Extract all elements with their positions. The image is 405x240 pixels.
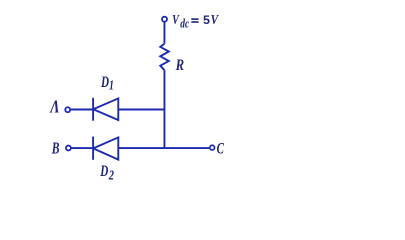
resistor R (zigzag) bbox=[160, 44, 169, 71]
svg-text:V: V bbox=[211, 12, 220, 27]
terminal B (open circle) bbox=[66, 146, 71, 151]
svg-text:D: D bbox=[99, 162, 108, 179]
svg-text:R: R bbox=[175, 57, 185, 75]
svg-text:5: 5 bbox=[203, 13, 210, 27]
wire top vertical (terminal to resistor) bbox=[163, 22, 165, 43]
wire input A to diode D1 cathode bbox=[71, 109, 93, 111]
svg-text:Λ: Λ bbox=[50, 98, 60, 117]
svg-text:C: C bbox=[217, 140, 225, 157]
wire diode D2 to output C bbox=[118, 147, 209, 149]
svg-text:D: D bbox=[100, 73, 109, 90]
label = sign bbox=[191, 18, 198, 23]
wire diode D1 to node bbox=[118, 109, 164, 111]
terminal Vdc (open circle) bbox=[162, 17, 167, 22]
diode D2 (triangle + cathode bar) bbox=[93, 137, 118, 160]
terminal C (open circle) bbox=[210, 145, 215, 150]
svg-text:2: 2 bbox=[108, 167, 114, 183]
svg-text:1: 1 bbox=[109, 77, 114, 93]
svg-text:B: B bbox=[51, 139, 60, 158]
svg-text:dc: dc bbox=[180, 17, 189, 31]
svg-text:V: V bbox=[172, 11, 180, 27]
wire middle vertical (resistor to output row, through node) bbox=[163, 70, 165, 148]
terminal A (open circle) bbox=[65, 107, 70, 112]
wire input B to diode D2 cathode bbox=[72, 147, 94, 149]
diode D1 (triangle + cathode bar) bbox=[93, 98, 118, 121]
